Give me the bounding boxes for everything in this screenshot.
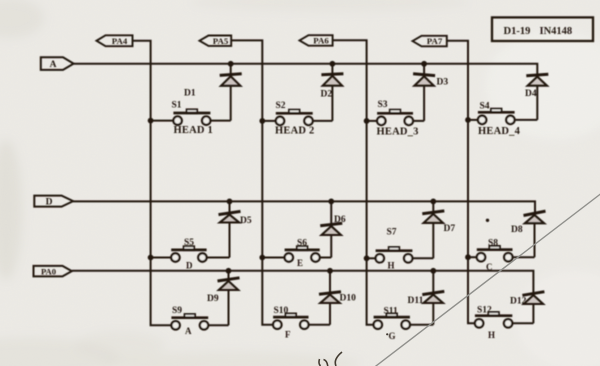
- wire S6 right to D6: [320, 257, 332, 259]
- switch S7: [376, 247, 413, 263]
- svg-text:D1: D1: [184, 89, 196, 99]
- wire S5 left to PA4 column: [151, 257, 172, 259]
- svg-text:S9: S9: [172, 306, 182, 316]
- svg-text:S1: S1: [172, 101, 182, 111]
- svg-text:G: G: [389, 331, 396, 341]
- svg-text:HEAD_4: HEAD_4: [478, 126, 521, 137]
- svg-text:HEAD 2: HEAD 2: [275, 125, 314, 136]
- wire S6 left to PA5 column: [262, 257, 284, 259]
- svg-text:PA6: PA6: [313, 36, 329, 46]
- svg-text:D9: D9: [207, 294, 219, 304]
- net tag PA6: [300, 35, 333, 46]
- svg-text:H: H: [488, 330, 495, 340]
- stray ink dot artifact: [486, 219, 489, 222]
- junction PA0 bus / D11: [430, 268, 436, 274]
- junction PA4 / S5: [148, 255, 154, 261]
- diode D3: [413, 64, 435, 121]
- svg-text:S4: S4: [480, 101, 490, 111]
- diode D1: [220, 64, 242, 121]
- diode D10: [319, 271, 341, 325]
- junction PA5 / S6: [259, 255, 265, 261]
- svg-text:S2: S2: [276, 101, 286, 111]
- diode D9: [218, 271, 240, 326]
- net tag PA4: [97, 35, 133, 46]
- svg-text:D8: D8: [511, 225, 523, 235]
- ink speck: [386, 333, 388, 335]
- diode D7: [422, 201, 444, 258]
- svg-text:H: H: [388, 260, 395, 270]
- svg-text:D2: D2: [321, 90, 333, 100]
- wire S9 right to D9: [208, 324, 228, 326]
- diode D2: [321, 64, 343, 121]
- svg-text:S8: S8: [488, 238, 498, 248]
- svg-text:D11: D11: [408, 296, 424, 306]
- wire S7 left to PA6 column: [367, 257, 376, 259]
- svg-text:S5: S5: [184, 238, 194, 248]
- handwritten mark: [319, 352, 342, 366]
- svg-text:D7: D7: [444, 224, 456, 234]
- wire PA5 column: [231, 40, 273, 324]
- junction PA7 / S8: [465, 254, 471, 260]
- wire S8 left to PA7 column: [468, 256, 477, 258]
- svg-text:S3: S3: [378, 100, 388, 110]
- value label box D1-19 IN4148: [492, 17, 593, 41]
- junction A bus / D1: [228, 61, 234, 67]
- svg-text:HEAD_3: HEAD_3: [377, 127, 419, 138]
- svg-text:D3: D3: [437, 77, 449, 87]
- svg-text:PA5: PA5: [213, 36, 229, 46]
- net tag PA7: [413, 36, 447, 47]
- switch S12: [475, 312, 512, 327]
- wire S1 right to D1: [210, 120, 230, 122]
- svg-text:S12: S12: [477, 305, 492, 315]
- net tag PA5: [200, 36, 232, 46]
- wire PA0 bus: [72, 271, 534, 295]
- svg-text:S7: S7: [387, 227, 397, 237]
- junction PA5 / S2: [259, 118, 265, 124]
- wire S3 right to D3: [413, 120, 424, 122]
- wire PA4 column: [133, 41, 173, 326]
- svg-text:D12: D12: [510, 296, 527, 306]
- switch S11: [374, 313, 410, 329]
- diode D11: [422, 271, 444, 325]
- junction D bus / D7: [430, 199, 436, 205]
- svg-text:S10: S10: [274, 306, 289, 316]
- svg-text:A: A: [185, 326, 192, 336]
- junction PA0 bus / D10: [327, 268, 333, 274]
- junction PA0 bus / D9: [226, 268, 232, 274]
- junction PA4 / S1: [148, 118, 154, 124]
- switch S9: [171, 314, 208, 329]
- switch S5: [171, 246, 206, 262]
- net tag A: [41, 57, 74, 70]
- diode D12: [522, 292, 544, 324]
- switch S8: [477, 246, 513, 262]
- wire PA7 column: [447, 41, 476, 324]
- diode D4: [526, 74, 548, 120]
- junction D bus / D6: [328, 199, 334, 205]
- svg-text:C: C: [486, 262, 493, 272]
- wire D bus: [73, 201, 535, 214]
- switch S4: [478, 109, 515, 125]
- svg-text:D1-19: D1-19: [504, 26, 531, 37]
- svg-text:HEAD 1: HEAD 1: [174, 125, 213, 136]
- svg-text:A: A: [50, 60, 57, 70]
- net tag D: [34, 196, 73, 208]
- svg-text:D: D: [46, 197, 53, 207]
- wire S4 right to D4: [515, 119, 538, 121]
- svg-text:D10: D10: [340, 293, 357, 303]
- wire PA6 column: [333, 40, 375, 325]
- wire S3 left to PA6 column: [367, 120, 378, 122]
- diode D5: [219, 201, 241, 257]
- wire S10 right to D10: [309, 324, 331, 326]
- switch S1: [173, 109, 210, 125]
- wire S2 left to PA5 column: [262, 120, 276, 122]
- wire S2 right to D2: [313, 120, 333, 122]
- svg-text:D4: D4: [525, 89, 537, 99]
- svg-text:PA0: PA0: [41, 266, 56, 276]
- switch S2: [276, 110, 313, 126]
- svg-text:D5: D5: [240, 216, 252, 226]
- wire S4 left to PA7 column: [468, 119, 478, 121]
- svg-text:PA4: PA4: [112, 36, 128, 46]
- wire A bus: [74, 64, 538, 76]
- junction PA6 / S3: [364, 118, 370, 124]
- wire S7 right to D7: [412, 257, 433, 259]
- svg-text:S6: S6: [297, 238, 307, 248]
- svg-text:D: D: [186, 261, 193, 271]
- svg-text:PA7: PA7: [427, 36, 443, 46]
- svg-text:F: F: [285, 329, 291, 339]
- junction PA6 / S7: [364, 255, 370, 261]
- svg-text:E: E: [297, 258, 303, 268]
- junction A bus / D3: [421, 61, 427, 67]
- diagonal scan crease: [372, 189, 600, 366]
- junction PA7 / S4: [465, 117, 471, 123]
- diode D6: [320, 201, 342, 257]
- svg-text:IN4148: IN4148: [540, 26, 573, 37]
- switch S10: [273, 313, 308, 329]
- net tag PA0: [34, 266, 72, 277]
- wire S12 right to D12: [512, 322, 533, 324]
- wire S8 right to D8: [513, 256, 535, 258]
- switch S3: [377, 110, 413, 126]
- junction D bus / D5: [227, 199, 233, 205]
- diode D8: [524, 211, 546, 257]
- svg-text:S11: S11: [384, 306, 399, 316]
- wire S1 left to PA4 column: [151, 120, 174, 122]
- junction A bus / D2: [330, 61, 336, 67]
- svg-text:D6: D6: [334, 215, 346, 225]
- switch S6: [285, 246, 320, 262]
- wire S11 right to D11: [410, 324, 433, 326]
- wire S5 right to D5: [207, 257, 230, 259]
